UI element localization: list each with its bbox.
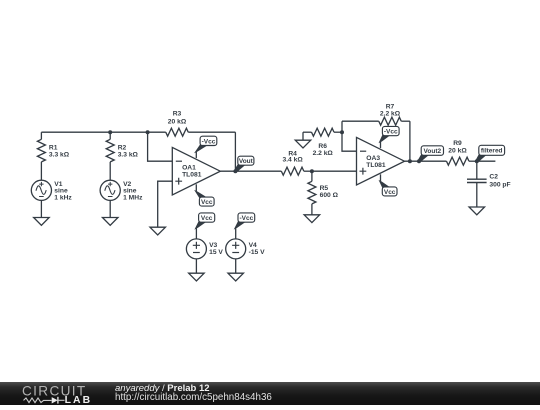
label Vcc at OA3 bottom [379,181,397,196]
voltage source V3 [186,239,223,259]
svg-text:R2: R2 [118,145,127,152]
label Vout2 [417,146,443,162]
ground at OA1 non-inverting input [150,227,166,235]
wire top rail from R1 to R2 [41,131,110,133]
wire OA3 output to R9 [405,160,447,162]
voltage source V2 [100,180,143,201]
svg-text:TL081: TL081 [182,172,202,179]
voltage source V1 [31,180,72,201]
svg-text:OA3: OA3 [366,155,380,162]
wire inverting input drop [148,132,173,161]
resistor R9 [446,140,476,165]
svg-text:Vcc: Vcc [201,215,213,222]
junction R2 top [108,130,112,134]
label Vcc at OA1 bottom [195,191,214,206]
label -Vcc at OA1 top [195,136,217,152]
svg-text:3.4 kΩ: 3.4 kΩ [282,156,303,163]
svg-text:Vcc: Vcc [384,189,396,196]
wire R6 to ground [302,132,304,140]
svg-text:3.3 kΩ: 3.3 kΩ [49,152,70,159]
svg-text:300 pF: 300 pF [489,181,510,188]
svg-text:20 kΩ: 20 kΩ [448,147,467,154]
op-amp OA1 TL081 [172,147,220,195]
wire top rail from R2 to node feedback junction [110,131,147,133]
wire V1 to ground [40,200,42,217]
svg-text:LAB: LAB [65,395,93,405]
resistor R2 [106,132,138,180]
wire non-inverting input to ground [158,181,173,227]
svg-text:Vout: Vout [239,158,254,165]
junction R4/R5 node [310,169,314,173]
wire V4 minus to ground [235,259,237,273]
label Vout [234,156,254,171]
resistor R1 [37,132,69,180]
svg-text:-15 V: -15 V [249,249,266,256]
svg-text:15 V: 15 V [209,249,223,256]
ground under V2 [102,218,118,226]
ground under R5 [304,215,320,223]
wire feedback vertical to OA3 inverting input [342,121,357,151]
ground under V1 [34,218,50,226]
resistor R5 [308,171,339,215]
label filtered [475,145,504,161]
label Vcc above V3 [195,213,215,229]
junction R6/feedback vertical [340,130,344,134]
resistor R3 [148,111,236,137]
junction feedback node [146,130,150,134]
wire V4 plus terminal up [235,228,237,239]
junction Vout2 node [417,159,421,163]
OA3 V- pin to Vcc [380,174,382,181]
resistor R6 [303,128,342,157]
wire stub right of filtered node [477,160,496,162]
label -Vcc above V4 [235,213,255,229]
CircuitLab logo [22,384,92,406]
OA1 V+ pin to -Vcc [195,152,197,158]
svg-text:R9: R9 [453,140,462,147]
wire R7 down to OA3 output [409,121,411,161]
svg-text:-Vcc: -Vcc [239,215,253,222]
op-amp OA3 TL081 [357,137,405,185]
resistor R4 [281,151,312,176]
svg-text:2.2 kΩ: 2.2 kΩ [313,150,334,157]
label -Vcc at OA3 top [379,126,399,142]
wire V2 to ground [109,200,111,217]
voltage source V4 [226,239,265,259]
ground under V4 [228,273,244,281]
svg-text:OA1: OA1 [182,164,196,171]
svg-text:1 kHz: 1 kHz [54,195,72,202]
svg-text:R3: R3 [173,111,182,118]
resistor R7 [342,104,410,126]
svg-text:1 MHz: 1 MHz [123,195,143,202]
svg-text:Vout2: Vout2 [424,148,442,155]
wire V3 minus to ground [195,259,197,273]
ground at R6 [295,140,311,148]
svg-text:C2: C2 [489,174,498,181]
wire V3 plus terminal up [195,228,197,239]
svg-text:Vcc: Vcc [201,199,213,206]
wire OA1 output to R4 [220,170,281,172]
svg-text:R1: R1 [49,145,58,152]
wire node to OA3 non-inverting input [312,170,357,172]
svg-text:3.3 kΩ: 3.3 kΩ [118,152,139,159]
svg-text:R6: R6 [318,143,327,150]
svg-text:600 Ω: 600 Ω [320,192,339,199]
svg-text:filtered: filtered [481,148,503,155]
OA1 V- pin to Vcc [195,184,197,191]
svg-text:-Vcc: -Vcc [202,138,216,145]
ground under V3 [189,273,205,281]
svg-text:2.2 kΩ: 2.2 kΩ [380,111,401,118]
svg-text:TL081: TL081 [366,162,386,169]
junction OA3 output/feedback [408,159,412,163]
svg-text:20 kΩ: 20 kΩ [168,118,187,125]
junction filtered node [475,159,479,163]
ground under C2 [469,207,485,215]
OA3 V+ pin to -Vcc [380,142,382,148]
capacitor C2 [467,161,511,207]
junction output/feedback node [233,169,237,173]
wire R3 down to output node [234,132,236,171]
svg-text:-Vcc: -Vcc [384,128,398,135]
svg-text:R7: R7 [386,104,395,111]
